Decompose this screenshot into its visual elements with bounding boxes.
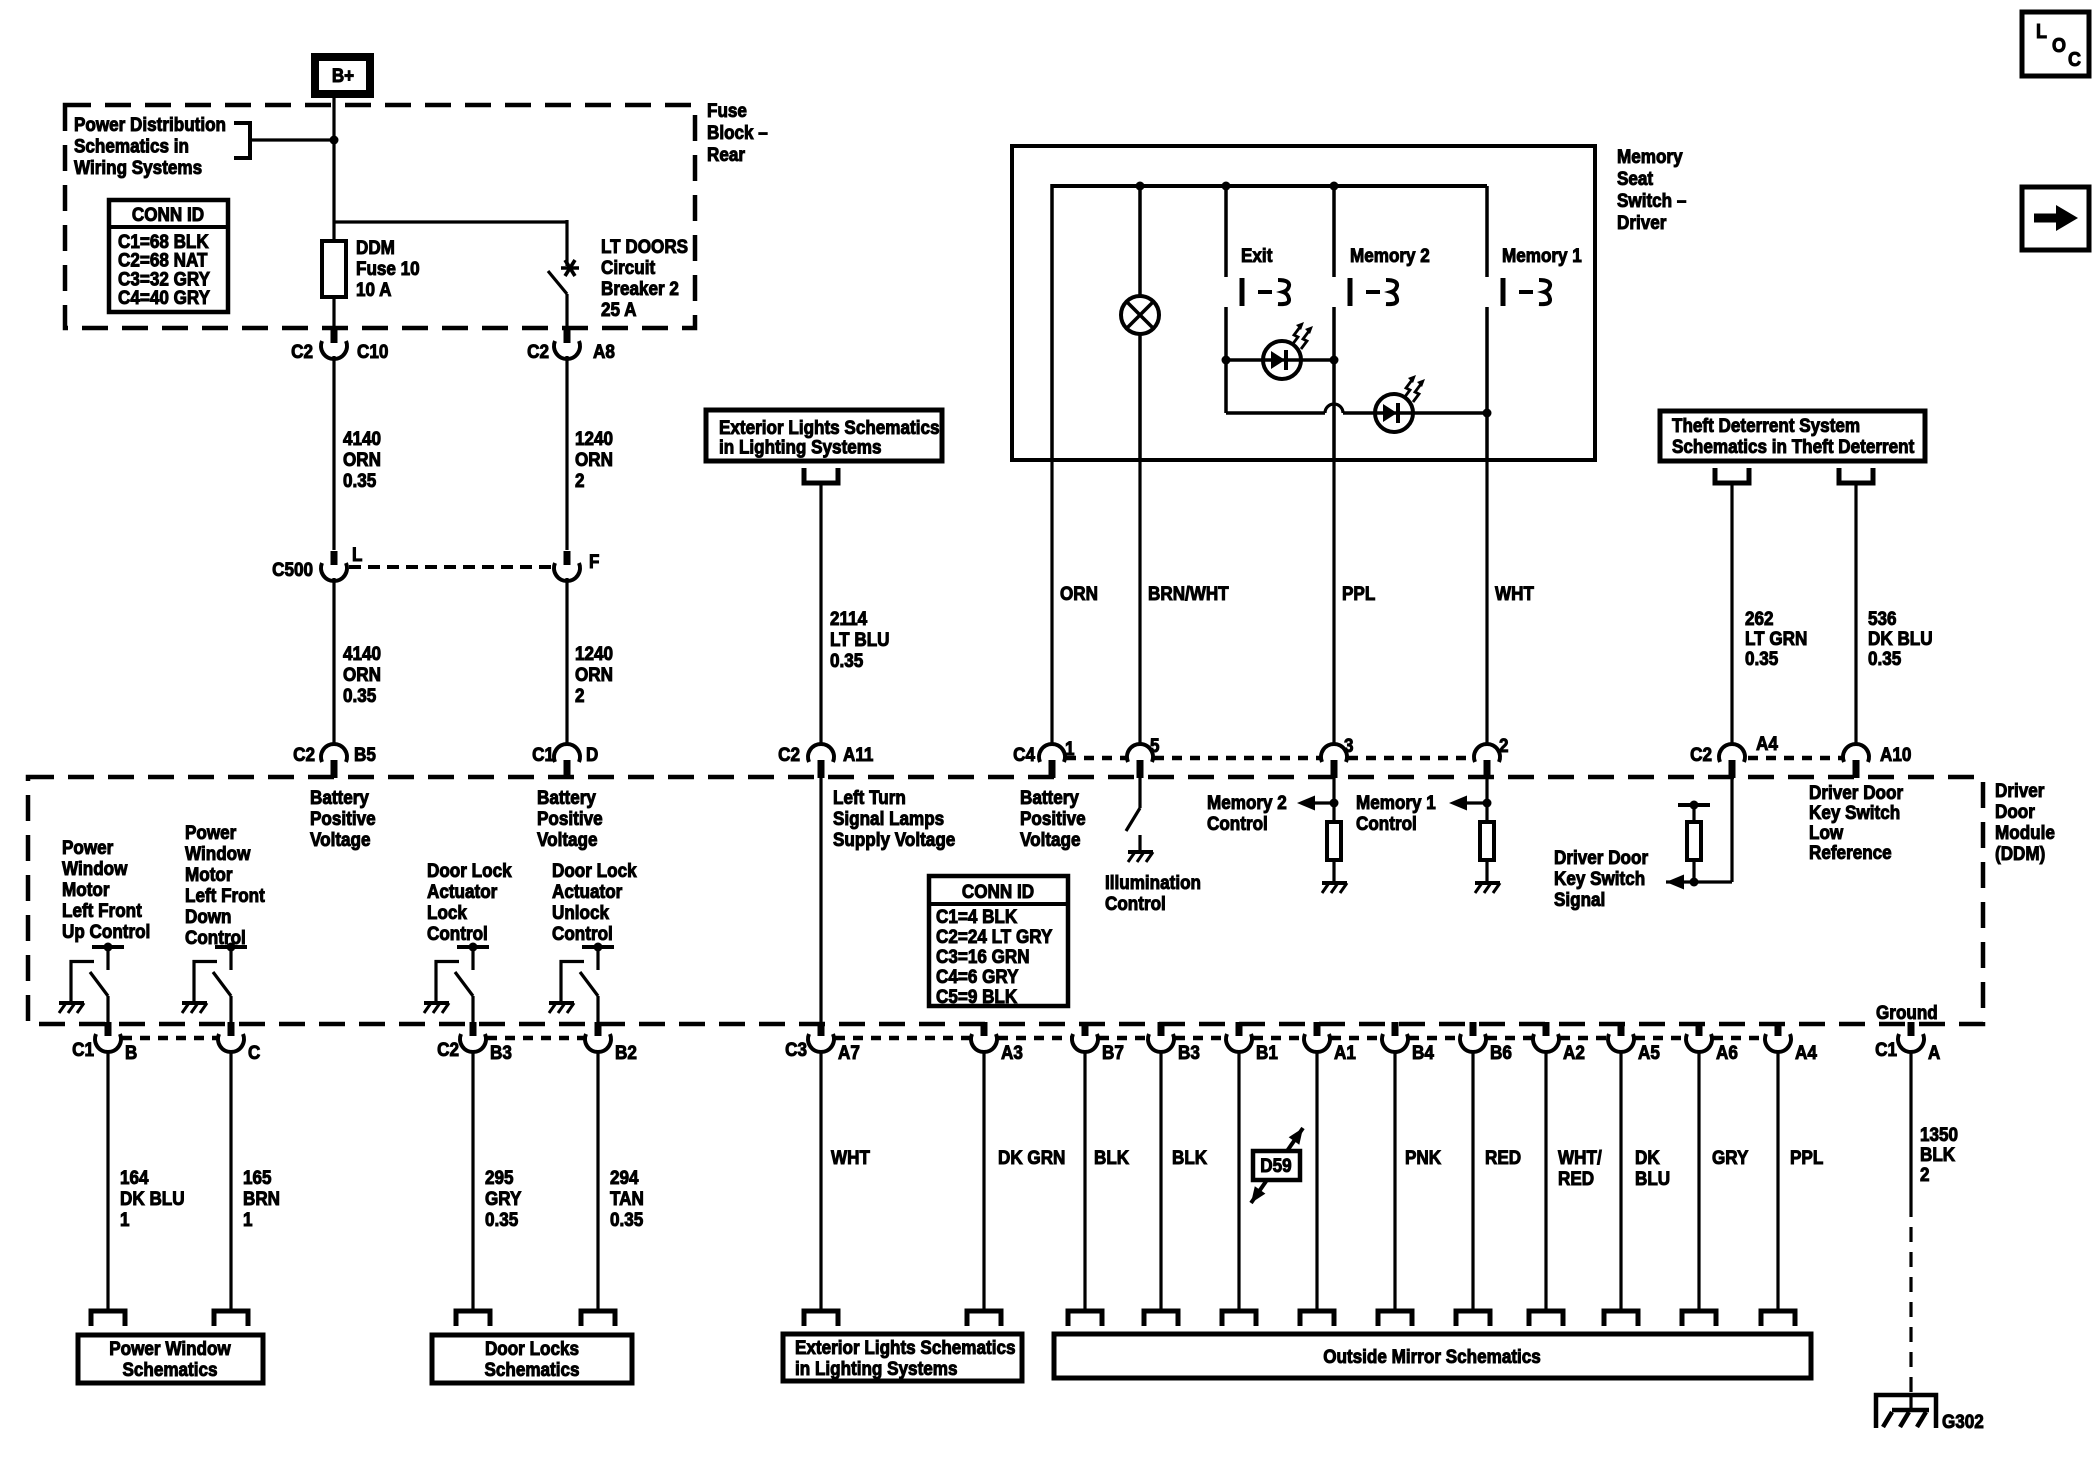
connector pin B2 <box>585 1022 611 1052</box>
svg-text:C3: C3 <box>785 1040 807 1061</box>
svg-text:C4: C4 <box>1013 745 1035 766</box>
driver power window down output <box>182 943 247 1025</box>
node memory 2 tap <box>1330 799 1339 808</box>
driver door lock output <box>424 943 489 1025</box>
connector C500 dashed link <box>349 565 553 569</box>
wire ORN branch inside box <box>1050 184 1054 460</box>
Theft Deterrent System reference box <box>1660 411 1925 461</box>
wire 262 LT GRN 0.35 <box>1730 483 1733 746</box>
wire Memory 2 upper <box>1332 186 1336 277</box>
ground G302 <box>1909 1393 1912 1410</box>
off-page bracket theft 262 <box>1715 468 1749 483</box>
svg-text:A10: A10 <box>1880 745 1911 766</box>
wire branch to circuit breaker <box>334 220 567 223</box>
B+ power node box <box>315 57 370 94</box>
svg-text:B6: B6 <box>1490 1043 1512 1064</box>
driver door unlock output <box>549 943 614 1025</box>
LED exit indicator <box>1263 322 1313 379</box>
svg-text:C2: C2 <box>293 745 315 766</box>
svg-text:A5: A5 <box>1638 1043 1660 1064</box>
svg-text:D59: D59 <box>1260 1156 1291 1177</box>
node Exit LED tap <box>1222 356 1231 365</box>
switch Memory 2 <box>1350 278 1397 306</box>
brackets above bottom reference boxes <box>91 1311 125 1326</box>
connector C4 dashed link 3-2 <box>1348 756 1473 761</box>
connector C4 dashed link 5-3 <box>1154 756 1320 761</box>
connector C2 A8 <box>554 329 580 359</box>
forward arrow box <box>2022 187 2089 250</box>
resistor memory 1 pulldown <box>1480 822 1494 860</box>
wire A4 into DDM <box>1730 777 1733 882</box>
wire resistor to ground <box>1332 860 1335 883</box>
connector C2 A4 <box>1719 744 1745 778</box>
connector pin A5 <box>1608 1022 1634 1052</box>
connector pin 2 <box>1474 744 1500 778</box>
svg-text:WHT: WHT <box>1495 584 1534 605</box>
wire 4140 ORN 0.35 upper <box>332 356 335 550</box>
Memory Seat Switch - Driver box <box>1012 146 1595 460</box>
svg-text:A11: A11 <box>843 745 874 766</box>
svg-text:PNK: PNK <box>1405 1148 1441 1169</box>
connector C1 D <box>554 744 580 778</box>
svg-text:B3: B3 <box>490 1043 512 1064</box>
ground memory 2 <box>1322 883 1347 893</box>
wire 536 DK BLU 0.35 <box>1854 483 1857 746</box>
svg-text:B1: B1 <box>1256 1043 1278 1064</box>
Exterior Lights Schematics top reference box <box>706 410 942 461</box>
connector pin A4 <box>1765 1022 1791 1052</box>
svg-text:A1: A1 <box>1334 1043 1356 1064</box>
svg-text:BRN/WHT: BRN/WHT <box>1148 584 1229 605</box>
connector dashed link A4-A10 <box>1748 756 1842 761</box>
svg-text:Ground: Ground <box>1876 1003 1938 1024</box>
wire PPL <box>1332 460 1335 746</box>
wire Memory 2 lower <box>1332 307 1336 460</box>
svg-text:L: L <box>352 545 363 566</box>
svg-text:CONN ID: CONN ID <box>962 882 1034 903</box>
driver power window up output <box>59 943 124 1025</box>
resistor key switch pullup <box>1687 822 1701 860</box>
svg-text:B7: B7 <box>1102 1043 1124 1064</box>
svg-text:B4: B4 <box>1412 1043 1434 1064</box>
wire resistor to ground <box>1485 860 1488 883</box>
Outside Mirror Schematics box <box>1054 1334 1811 1378</box>
connector A10 <box>1843 744 1869 778</box>
wire Memory 1 upper <box>1485 186 1489 277</box>
connector dashed links bottom row <box>122 1036 217 1041</box>
connector pin A <box>1898 1022 1924 1052</box>
svg-text:2: 2 <box>1499 736 1509 757</box>
wire key switch pullup T-bar <box>1678 803 1710 807</box>
svg-text:A4: A4 <box>1756 734 1778 755</box>
connector pin A6 <box>1686 1022 1712 1052</box>
switch Exit <box>1242 278 1289 306</box>
svg-text:Door LocksSchematics: Door LocksSchematics <box>485 1339 580 1381</box>
node memory 1 tap <box>1483 799 1492 808</box>
resistor memory 2 pulldown <box>1327 822 1341 860</box>
ground illumination control <box>1128 852 1153 862</box>
wire 1240 ORN 2 lower <box>565 578 568 746</box>
LOC locator box <box>2022 12 2089 76</box>
svg-text:C2: C2 <box>291 342 313 363</box>
svg-text:PPL: PPL <box>1790 1148 1824 1169</box>
svg-text:Driver DoorKey SwitchLowRefere: Driver DoorKey SwitchLowReference <box>1809 783 1904 864</box>
svg-text:3: 3 <box>1344 736 1354 757</box>
wires from DDM bottom to reference boxes <box>106 1051 109 1311</box>
svg-text:BLK: BLK <box>1172 1148 1207 1169</box>
svg-text:WHT: WHT <box>831 1148 870 1169</box>
svg-text:C2: C2 <box>437 1040 459 1061</box>
connector pin 5 <box>1127 744 1153 778</box>
splice reference D59 <box>1251 1128 1303 1203</box>
svg-text:Outside Mirror Schematics: Outside Mirror Schematics <box>1323 1347 1541 1368</box>
svg-text:C2: C2 <box>778 745 800 766</box>
wire key switch signal horizontal <box>1666 880 1732 883</box>
Exterior Lights Schematics bottom box <box>783 1334 1022 1381</box>
connector C4 dashed link 1-5 <box>1066 756 1127 761</box>
wire pin 3 to resistor <box>1332 777 1335 822</box>
wire 2114 LT BLU 0.35 <box>819 483 822 746</box>
svg-text:B+: B+ <box>332 66 354 87</box>
connector pin B6 <box>1460 1022 1486 1052</box>
svg-text:C500: C500 <box>272 560 313 581</box>
connector pin 3 <box>1321 744 1347 778</box>
svg-text:C1: C1 <box>1875 1040 1897 1061</box>
off-page bracket exterior lights top <box>804 468 838 483</box>
svg-text:B: B <box>125 1043 137 1064</box>
arrow memory 2 control <box>1297 796 1315 811</box>
wire 1240 ORN 2 upper <box>565 356 568 550</box>
svg-text:Exit: Exit <box>1241 246 1273 267</box>
CONN ID table (fuse block) <box>109 200 228 312</box>
svg-text:C: C <box>248 1043 261 1064</box>
node Memory 2 LED tap <box>1330 356 1339 365</box>
connector C2 A11 <box>808 744 834 778</box>
Door Locks Schematics box <box>432 1335 632 1383</box>
Fuse Block - Rear dashed box <box>65 105 695 328</box>
svg-text:BatteryPositiveVoltage: BatteryPositiveVoltage <box>537 788 603 851</box>
svg-text:C1=68 BLKC2=68 NATC3=32 GRYC4=: C1=68 BLKC2=68 NATC3=32 GRYC4=40 GRY <box>118 232 210 309</box>
svg-text:C1: C1 <box>72 1040 94 1061</box>
connector pin B7 <box>1072 1022 1098 1052</box>
ground memory 1 <box>1475 883 1500 893</box>
LED memory indicator <box>1375 375 1425 432</box>
wire A11 through DDM <box>819 777 822 1024</box>
svg-text:C: C <box>2068 49 2081 71</box>
wire lamp branch <box>1138 186 1142 297</box>
svg-text:A6: A6 <box>1716 1043 1738 1064</box>
svg-text:PPL: PPL <box>1342 584 1376 605</box>
svg-text:F: F <box>589 552 599 573</box>
svg-text:BatteryPositiveVoltage: BatteryPositiveVoltage <box>310 788 376 851</box>
node junction B+ feed <box>330 136 339 145</box>
svg-text:C2: C2 <box>1690 745 1712 766</box>
wire 4140 ORN 0.35 lower <box>332 578 335 746</box>
connector C500 L <box>321 551 347 581</box>
svg-text:C2: C2 <box>527 342 549 363</box>
svg-text:4140ORN0.35: 4140ORN0.35 <box>343 644 381 707</box>
svg-text:GRY: GRY <box>1712 1148 1749 1169</box>
wire BRN/WHT <box>1138 460 1141 746</box>
wire memory switch top bus <box>1052 184 1487 188</box>
connector pin A7 <box>808 1022 834 1052</box>
fuse DDM Fuse 10 10A <box>322 241 346 297</box>
wire Memory 1 lower <box>1485 307 1489 460</box>
svg-text:B5: B5 <box>354 745 376 766</box>
svg-text:A7: A7 <box>838 1043 860 1064</box>
wire ORN <box>1050 460 1053 746</box>
svg-text:Memory 1: Memory 1 <box>1502 246 1582 267</box>
wire WHT <box>1485 460 1488 746</box>
node bus / Exit branch <box>1222 182 1231 191</box>
connector pin A3 <box>971 1022 997 1052</box>
wire pin 2 to resistor <box>1485 777 1488 822</box>
svg-text:Memory 2: Memory 2 <box>1350 246 1430 267</box>
Power Window Schematics box <box>78 1335 263 1383</box>
svg-text:B3: B3 <box>1178 1043 1200 1064</box>
svg-text:5: 5 <box>1150 736 1160 757</box>
svg-text:CONN ID: CONN ID <box>132 205 204 226</box>
connector pin C <box>218 1022 244 1052</box>
switch Memory 1 <box>1503 278 1550 306</box>
node key switch resistor join <box>1690 878 1699 887</box>
svg-text:B2: B2 <box>615 1043 637 1064</box>
wire Power Distribution tap <box>250 138 334 141</box>
Driver Door Module (DDM) dashed box <box>28 777 1983 1024</box>
svg-text:BatteryPositiveVoltage: BatteryPositiveVoltage <box>1020 788 1086 851</box>
circuit breaker LT DOORS 2 25A (star + blade) <box>561 260 579 276</box>
wire lamp to pin 5 <box>1138 333 1142 460</box>
node bus / Memory 2 branch <box>1330 182 1339 191</box>
wire T to resistor <box>1692 805 1695 822</box>
wire fuse to C10 pin <box>332 297 335 328</box>
svg-text:A3: A3 <box>1001 1043 1023 1064</box>
connector pin B3 <box>1148 1022 1174 1052</box>
svg-text:C1: C1 <box>532 745 554 766</box>
node Memory 1 LED tap <box>1483 409 1492 418</box>
connector pin B <box>95 1022 121 1052</box>
lamp illumination bulb <box>1121 296 1159 334</box>
wire LED2 row with hop <box>1226 411 1325 415</box>
CONN ID table (DDM) <box>929 876 1068 1006</box>
svg-text:BLK: BLK <box>1094 1148 1129 1169</box>
svg-text:4140ORN0.35: 4140ORN0.35 <box>343 429 381 492</box>
svg-text:D: D <box>586 745 598 766</box>
connector pin B3 <box>460 1022 486 1052</box>
svg-text:A8: A8 <box>593 342 615 363</box>
svg-text:G302: G302 <box>1942 1412 1984 1433</box>
connector pin B4 <box>1382 1022 1408 1052</box>
svg-text:O: O <box>2052 35 2066 57</box>
svg-text:RED: RED <box>1485 1148 1521 1169</box>
svg-text:L: L <box>2036 21 2047 43</box>
svg-text:ORN: ORN <box>1060 584 1098 605</box>
connector C4 pin 1 <box>1039 744 1065 778</box>
svg-text:A2: A2 <box>1563 1043 1585 1064</box>
node key switch pullup top <box>1690 801 1699 810</box>
arrow driver door key switch signal <box>1666 875 1684 890</box>
wire 1350 BLK 2 (solid then dashed) <box>1909 1051 1912 1202</box>
illumination control switch <box>1138 777 1141 808</box>
svg-text:C10: C10 <box>357 342 388 363</box>
wire Exit upper <box>1224 186 1228 277</box>
connector pin A1 <box>1304 1022 1330 1052</box>
connector C2 B5 <box>321 744 347 778</box>
wire LED1 row <box>1226 358 1334 362</box>
connector pin A2 <box>1533 1022 1559 1052</box>
off-page bracket theft 536 <box>1839 468 1873 483</box>
wire B+ down into fuse block <box>332 95 335 241</box>
wire hop over Memory 2 line <box>1325 404 1343 413</box>
connector C500 F <box>554 551 580 581</box>
node bus / lamp branch <box>1136 182 1145 191</box>
svg-text:Power WindowSchematics: Power WindowSchematics <box>109 1339 231 1381</box>
arrow memory 1 control <box>1449 796 1467 811</box>
svg-text:A: A <box>1928 1043 1941 1064</box>
wire Exit lower <box>1224 307 1228 413</box>
svg-text:DK GRN: DK GRN <box>998 1148 1065 1169</box>
bracket from Power Distribution label <box>234 123 250 158</box>
connector pin B1 <box>1226 1022 1252 1052</box>
wire resistor to node <box>1692 860 1695 882</box>
svg-text:A4: A4 <box>1795 1043 1817 1064</box>
connector C2 C10 <box>321 329 347 359</box>
